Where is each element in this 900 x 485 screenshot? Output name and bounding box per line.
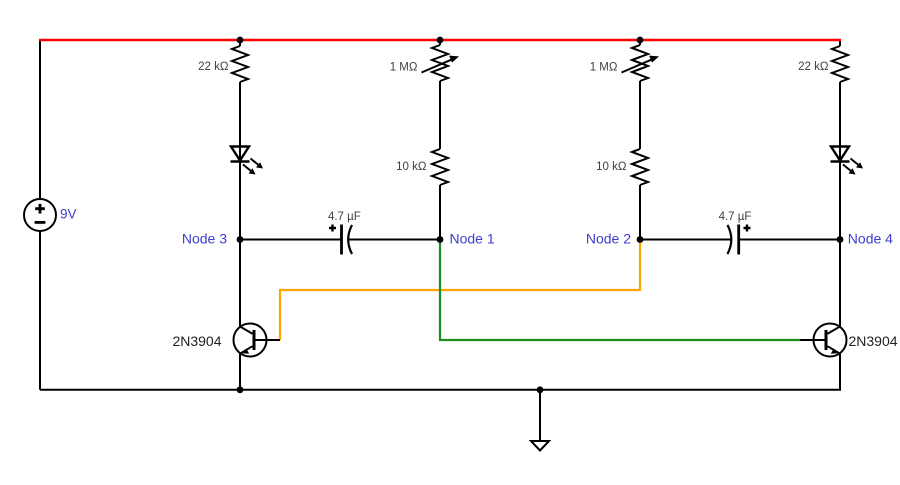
battery minus sign — [35, 221, 46, 224]
capacitor C2 positive plate — [737, 225, 740, 255]
junction dot emitter rail — [237, 386, 244, 393]
wire: top stub branch 3 — [639, 39, 641, 45]
wire: green cross-coupling Node 1 to Q2 base — [440, 240, 801, 340]
Q2 base bar — [825, 330, 828, 350]
capacitor C1 plus sign — [329, 225, 336, 232]
LED D2 light arrow 2 — [851, 159, 864, 169]
svg-text:Node 2: Node 2 — [586, 231, 631, 247]
junction dot top branch 2 — [437, 37, 444, 44]
potentiometer 1 MOhm left zigzag — [432, 45, 448, 81]
svg-text:Node 1: Node 1 — [450, 231, 495, 247]
wire: battery bottom to ground rail — [39, 231, 41, 390]
resistor 10 kOhm left — [432, 149, 448, 185]
LED D2 cathode bar — [831, 160, 850, 162]
wire: Q1 emitter to rail — [239, 354, 241, 390]
battery V1 9V source circle — [24, 199, 56, 231]
wire: resistor to Node 2 — [639, 185, 641, 240]
svg-text:4.7 µF: 4.7 µF — [719, 211, 752, 223]
wire: capacitor C2 to Node 4 — [739, 239, 840, 241]
LED D1 triangle — [231, 147, 249, 161]
wire: left supply vertical, battery top — [39, 39, 41, 199]
wire: resistor to Node 1 — [439, 185, 441, 240]
LED D1 cathode bar — [231, 160, 250, 162]
capacitor C1 positive plate — [340, 225, 343, 255]
wire: bottom ground rail — [40, 389, 841, 391]
transistor Q1 2N3904 circle — [234, 324, 267, 357]
svg-text:Node 3: Node 3 — [182, 231, 227, 247]
wire: Q2 emitter to rail — [839, 354, 841, 390]
Q2 emitter arrow — [831, 349, 839, 354]
Q2 base lead — [800, 339, 825, 341]
resistor 22 kOhm right — [832, 46, 848, 82]
svg-text:Node 4: Node 4 — [848, 231, 893, 247]
svg-text:2N3904: 2N3904 — [172, 333, 221, 349]
potentiometer arrow right — [622, 56, 660, 73]
Q1 base lead — [256, 339, 281, 341]
svg-text:9V: 9V — [60, 207, 77, 222]
svg-text:2N3904: 2N3904 — [849, 333, 898, 349]
capacitor C1 curved plate — [348, 225, 352, 254]
ground symbol — [531, 441, 549, 451]
Q1 collector diagonal — [240, 327, 253, 334]
svg-text:10 kΩ: 10 kΩ — [396, 161, 427, 173]
junction dot top branch 3 — [637, 37, 644, 44]
svg-text:10 kΩ: 10 kΩ — [596, 161, 627, 173]
LED D2 triangle — [831, 147, 849, 161]
capacitor C2 curved plate — [728, 225, 732, 254]
junction dot ground rail — [537, 386, 544, 393]
wire: Node 3 to capacitor C1 — [240, 239, 342, 241]
node 2 junction dot — [637, 236, 644, 243]
capacitor C2 plus sign — [744, 225, 751, 232]
transistor Q2 2N3904 circle — [814, 324, 847, 357]
svg-text:4.7 µF: 4.7 µF — [328, 211, 361, 223]
junction dot top branch 1 — [237, 37, 244, 44]
wire: Node 2 to capacitor C2 — [640, 239, 731, 241]
wire: orange cross-coupling Node 2 to Q1 base — [280, 240, 640, 340]
potentiometer arrow — [422, 56, 460, 73]
resistor 22 kOhm left — [232, 46, 248, 82]
LED D2 light arrow 1 — [843, 165, 856, 175]
Q1 base bar — [253, 330, 256, 350]
battery plus sign — [35, 204, 45, 214]
wire: resistor to LED D1 — [239, 82, 241, 240]
node 1 junction dot — [437, 236, 444, 243]
Q2 emitter diagonal — [828, 346, 840, 353]
resistor 10 kOhm right — [632, 149, 648, 185]
wire: capacitor C1 to Node 1 — [348, 239, 440, 241]
node 3 junction dot — [237, 236, 244, 243]
potentiometer 1 MOhm right zigzag — [632, 45, 648, 81]
svg-text:22 kΩ: 22 kΩ — [198, 61, 229, 73]
wire: ground stub — [539, 390, 541, 441]
wire: top stub branch 1 — [239, 39, 241, 46]
Q2 collector diagonal — [828, 327, 841, 334]
wire: red positive supply rail — [39, 39, 841, 41]
svg-text:22 kΩ: 22 kΩ — [798, 61, 829, 73]
wire: Node 4 down to Q2 collector — [839, 240, 841, 327]
wire: pot to 10k resistor right — [639, 81, 641, 149]
node 4 junction dot — [837, 236, 844, 243]
wire: pot to 10k resistor — [439, 81, 441, 149]
Q1 emitter diagonal — [241, 346, 253, 353]
wire: resistor to LED D2 — [839, 82, 841, 240]
LED D1 light arrow 2 — [251, 159, 264, 169]
wire: Node 3 down to Q1 collector — [239, 240, 241, 327]
wire: top stub branch 4 — [839, 39, 841, 46]
svg-text:1 MΩ: 1 MΩ — [590, 62, 618, 74]
svg-text:1 MΩ: 1 MΩ — [390, 62, 418, 74]
Q1 emitter arrow — [241, 349, 249, 354]
wire: top stub branch 2 — [439, 39, 441, 45]
LED D1 light arrow 1 — [243, 165, 256, 175]
